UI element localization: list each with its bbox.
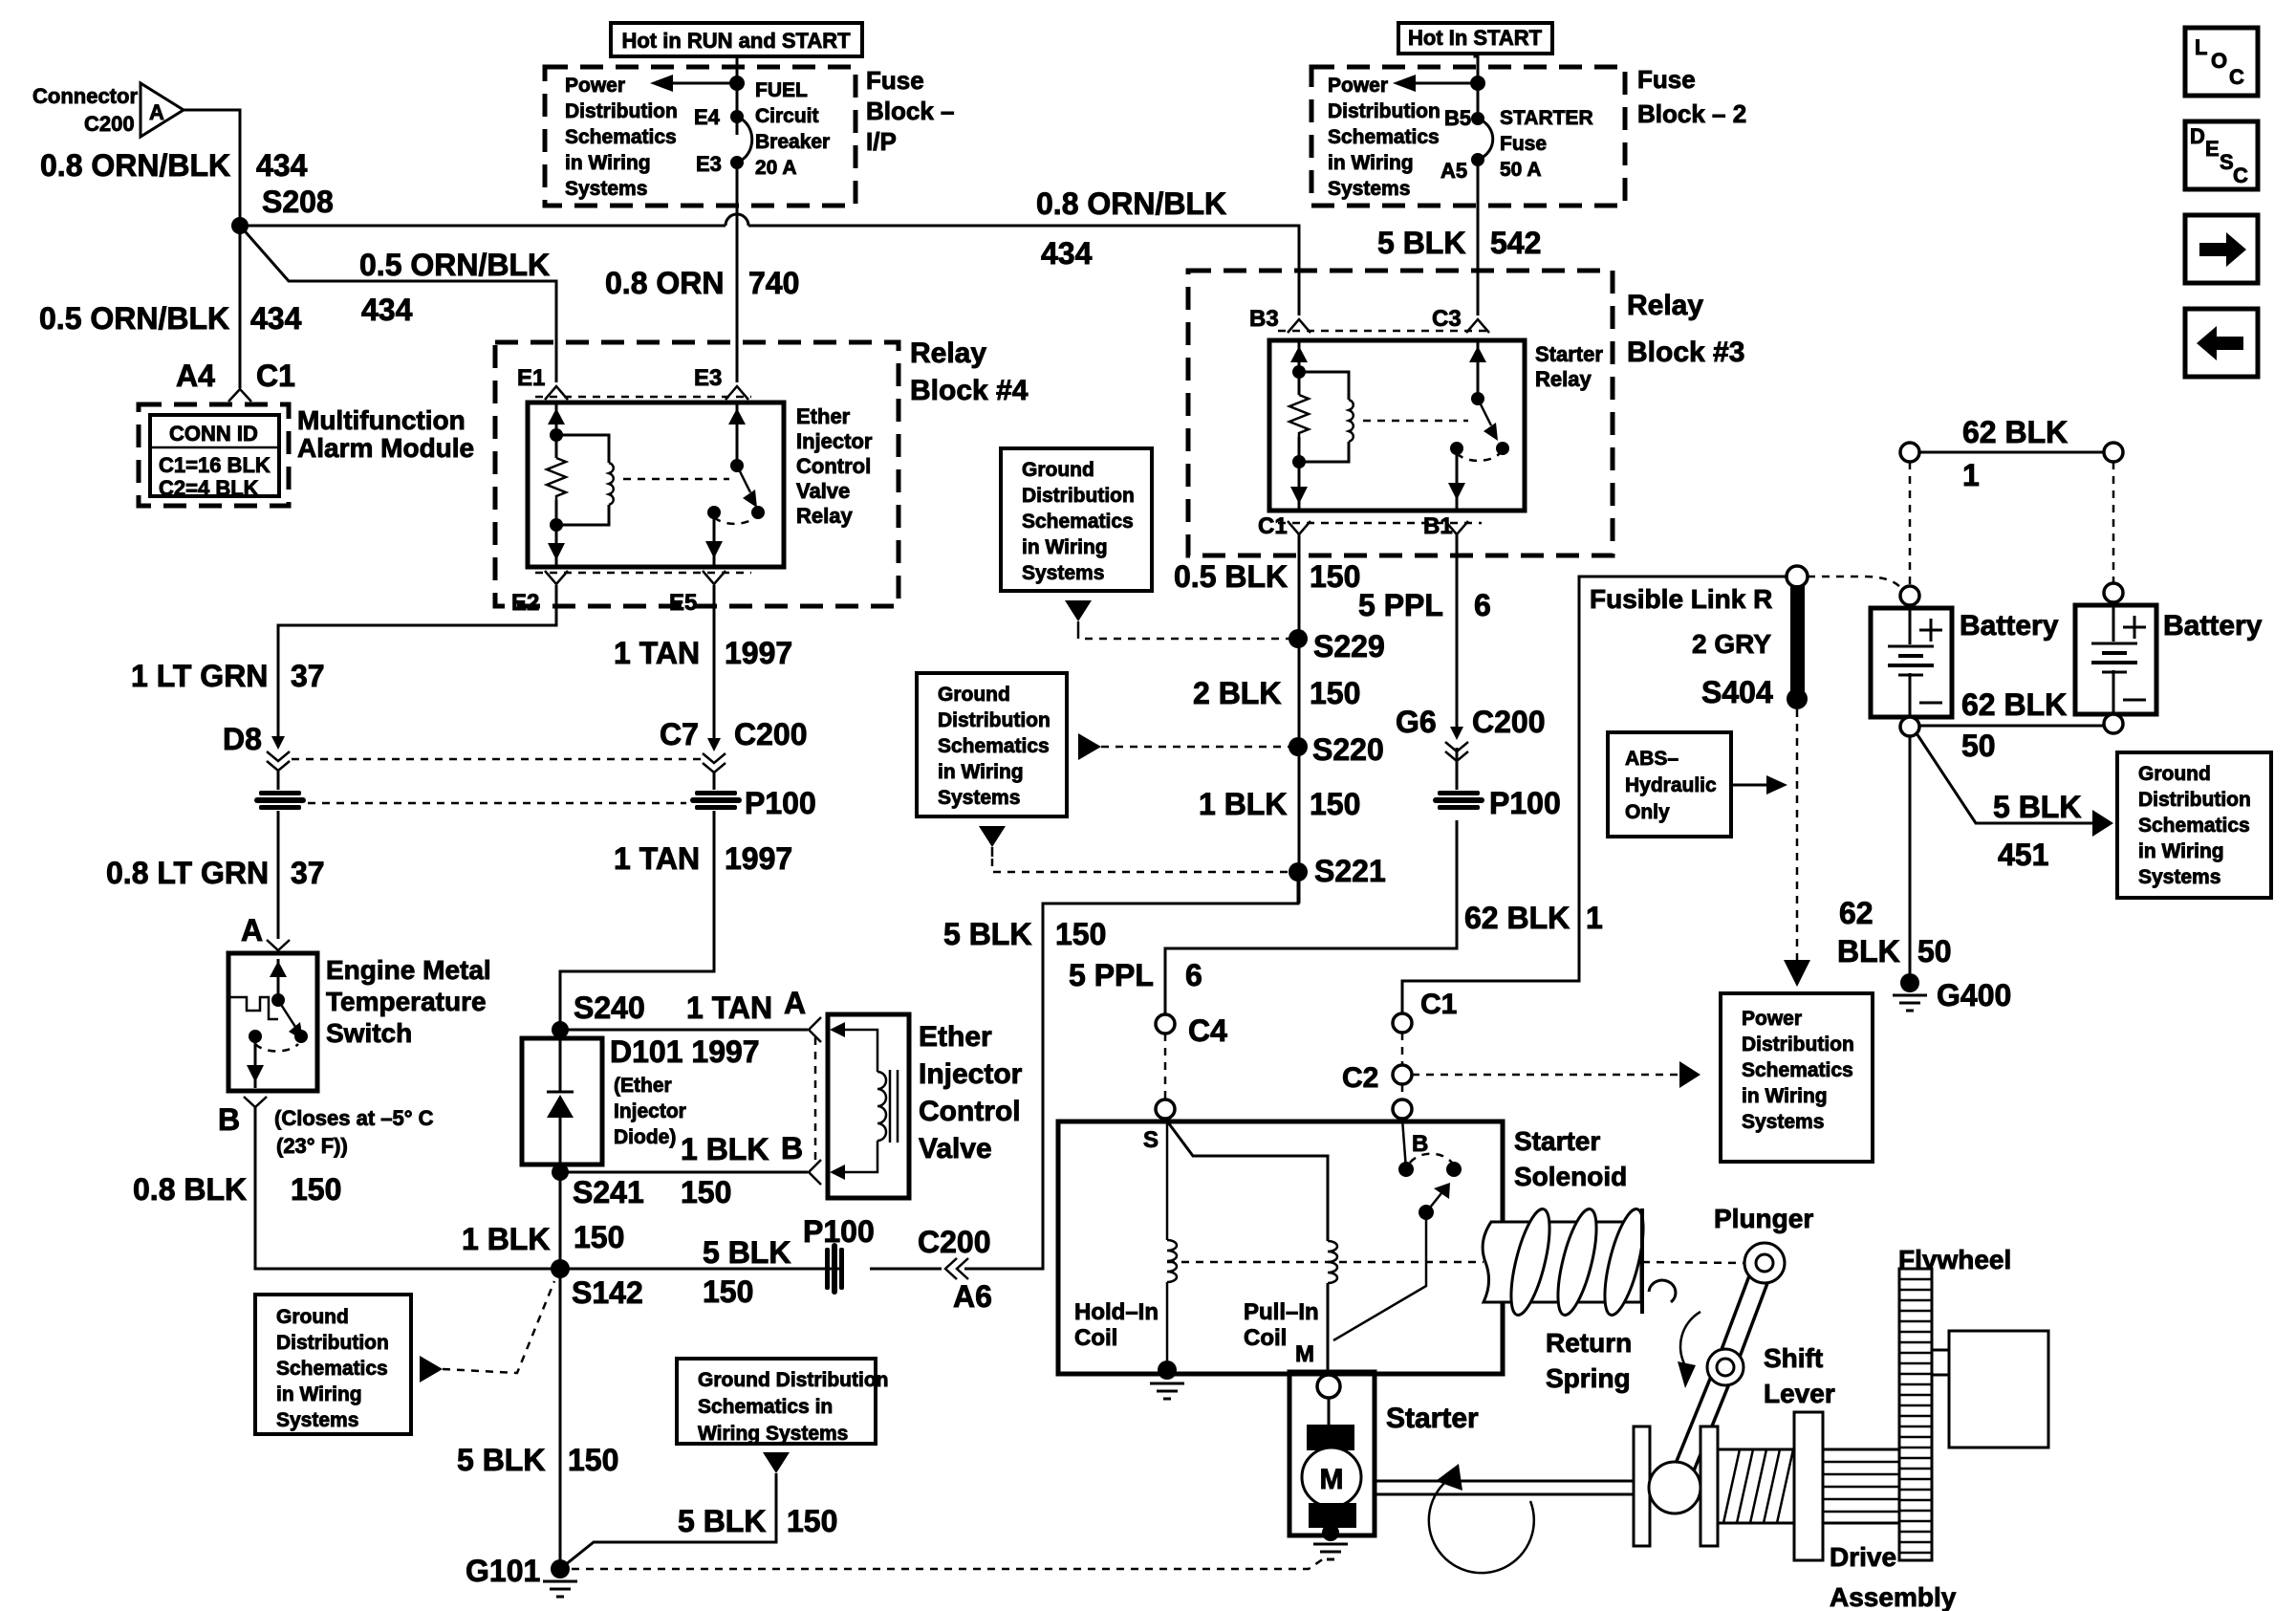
svg-text:C1: C1 xyxy=(1258,513,1288,539)
svg-text:5 BLK: 5 BLK xyxy=(678,1504,766,1538)
svg-text:1: 1 xyxy=(1962,458,1980,492)
svg-text:6: 6 xyxy=(1474,588,1491,622)
ground distribution box bottom left xyxy=(255,1295,411,1434)
valve coil internals xyxy=(830,1022,898,1180)
node G101 xyxy=(466,1554,570,1588)
label 0.5 ORN/BLK 434 left xyxy=(39,301,302,336)
svg-text:A: A xyxy=(149,100,164,124)
icon box arrow right xyxy=(2185,215,2258,283)
svg-text:0.5 BLK: 0.5 BLK xyxy=(1174,559,1288,594)
svg-text:150: 150 xyxy=(1310,787,1360,821)
svg-text:Systems: Systems xyxy=(565,178,647,200)
label 5 BLK 150 mid xyxy=(943,917,1106,951)
label 62 BLK 1 xyxy=(1464,901,1603,935)
temp switch internals xyxy=(230,959,308,1088)
arrow ABS box to fusible link wire xyxy=(1731,775,1787,795)
connector C200 triangle A xyxy=(141,83,184,137)
circuit breaker element xyxy=(737,117,752,163)
relay3 switch arrow up xyxy=(1469,346,1486,362)
svg-text:Shift: Shift xyxy=(1764,1343,1823,1373)
svg-text:1 LT GRN: 1 LT GRN xyxy=(131,659,268,693)
svg-text:Schematics in: Schematics in xyxy=(698,1396,833,1418)
svg-text:451: 451 xyxy=(1998,838,2048,872)
svg-text:Hot in RUN and START: Hot in RUN and START xyxy=(621,29,851,53)
svg-text:Starter: Starter xyxy=(1386,1403,1479,1434)
svg-text:Starter: Starter xyxy=(1514,1126,1600,1156)
label FUEL circuit breaker 20A xyxy=(755,79,830,179)
ground symbol G400 xyxy=(1893,995,1927,1011)
svg-text:S229: S229 xyxy=(1313,629,1385,664)
starter ground dot xyxy=(1322,1524,1339,1541)
svg-text:150: 150 xyxy=(787,1504,837,1538)
relay3 switch pivot dot xyxy=(1471,392,1484,405)
svg-text:Ground Distribution: Ground Distribution xyxy=(698,1369,888,1391)
label 1 BLK 150 xyxy=(1199,787,1360,821)
pin C1 relay3 xyxy=(1258,513,1310,539)
icon box DESC xyxy=(2185,121,2258,189)
node S404 xyxy=(1701,675,1808,709)
svg-text:Block #4: Block #4 xyxy=(910,375,1029,406)
svg-text:62: 62 xyxy=(1839,896,1874,930)
svg-text:Systems: Systems xyxy=(1328,178,1410,200)
svg-text:G6: G6 xyxy=(1396,705,1437,739)
dashed down to battery 1 xyxy=(1909,462,1912,585)
svg-text:in Wiring: in Wiring xyxy=(938,761,1024,783)
node S221 xyxy=(1289,854,1386,888)
relay3 arm end dot xyxy=(1496,442,1509,455)
relay4 switch pivot dot xyxy=(730,459,744,472)
svg-text:Systems: Systems xyxy=(1742,1111,1824,1133)
svg-text:Plunger: Plunger xyxy=(1714,1204,1813,1233)
label fusible link R 2 GRY xyxy=(1590,584,1772,659)
svg-text:0.8 LT GRN: 0.8 LT GRN xyxy=(106,856,269,890)
fuse block I/P dashed box xyxy=(545,67,856,206)
dashed D8 to C7 xyxy=(292,758,701,761)
svg-text:5 BLK: 5 BLK xyxy=(943,917,1031,951)
svg-text:E: E xyxy=(2205,137,2220,161)
label 5 BLK 542 xyxy=(1377,226,1541,260)
relay4 switch wire from E3 xyxy=(736,403,739,466)
wire battery1 to G400 xyxy=(1909,736,1912,983)
svg-text:FUEL: FUEL xyxy=(755,79,808,101)
hot in RUN and START box xyxy=(611,23,862,56)
label 2 BLK 150 xyxy=(1193,676,1360,710)
hold-in coil wire down xyxy=(1166,1282,1169,1370)
motor brush top xyxy=(1307,1425,1354,1450)
svg-text:Distribution: Distribution xyxy=(1328,100,1440,122)
relay4 contact dot xyxy=(707,506,721,519)
svg-text:E5: E5 xyxy=(669,590,697,616)
svg-text:S221: S221 xyxy=(1314,854,1386,888)
label D101 1997 ether injector diode xyxy=(610,1034,760,1148)
svg-text:0.8 BLK: 0.8 BLK xyxy=(133,1172,247,1207)
relay4 switch arrow up xyxy=(728,408,746,425)
svg-text:Injector: Injector xyxy=(796,429,873,453)
svg-text:C2=4 BLK: C2=4 BLK xyxy=(159,476,259,500)
label 0.8 BLK 150 xyxy=(133,1172,341,1207)
solenoid switch pivot dot xyxy=(1419,1205,1434,1220)
svg-text:Diode): Diode) xyxy=(614,1126,676,1148)
label ether injector control valve xyxy=(919,1021,1023,1165)
connector D8 (C200) xyxy=(223,722,290,771)
relay4 arrow up xyxy=(548,408,565,425)
svg-text:Schematics: Schematics xyxy=(1742,1059,1853,1081)
hot in START box xyxy=(1398,23,1552,54)
label relay block 3 xyxy=(1627,290,1744,368)
node S240 xyxy=(552,986,806,1038)
svg-text:434: 434 xyxy=(1041,236,1093,271)
CONN ID table xyxy=(150,415,279,500)
svg-text:S208: S208 xyxy=(262,185,334,219)
label engine metal temperature switch xyxy=(326,955,491,1048)
hold-in coil wire xyxy=(1166,1119,1169,1240)
relay3 arrow down xyxy=(1290,487,1308,504)
grommet P100 B1 xyxy=(1433,786,1561,820)
starter motor wire xyxy=(1329,1398,1331,1535)
label 5 PPL 6 lower xyxy=(1069,958,1202,992)
svg-text:Coil: Coil xyxy=(1244,1325,1287,1351)
svg-text:Valve: Valve xyxy=(919,1133,992,1165)
svg-text:542: 542 xyxy=(1490,226,1541,260)
junction dot fuse 2 top xyxy=(1470,76,1485,91)
label 62 BLK 1 top xyxy=(1962,415,2068,492)
wire S241 down to S142 xyxy=(559,1172,562,1269)
connector C7 (C200) xyxy=(660,717,808,773)
svg-text:Valve: Valve xyxy=(796,479,850,503)
svg-text:C1: C1 xyxy=(1420,989,1457,1020)
svg-text:Lever: Lever xyxy=(1764,1379,1835,1408)
label 1 TAN 1997 upper xyxy=(614,636,792,670)
label STARTER fuse 50A xyxy=(1500,107,1593,181)
svg-text:434: 434 xyxy=(361,293,413,327)
starter box xyxy=(1289,1372,1375,1535)
battery 1 bottom circle xyxy=(1900,717,1919,736)
label closes at -5C xyxy=(274,1106,434,1158)
svg-text:Hydraulic: Hydraulic xyxy=(1625,774,1717,796)
svg-text:Injector: Injector xyxy=(919,1058,1023,1090)
solenoid switch dashed arc xyxy=(1410,1154,1452,1163)
pin B3 xyxy=(1249,306,1310,333)
relay4 contact wire down xyxy=(705,512,723,567)
arrow right of bottom left ground box xyxy=(420,1356,443,1382)
relay4 top pin dashed row xyxy=(535,396,751,399)
relay3 contact wire down xyxy=(1448,448,1465,511)
svg-text:Ground: Ground xyxy=(2138,763,2211,785)
plunger pivot circle xyxy=(1744,1243,1785,1283)
relay3 switch arm xyxy=(1478,399,1498,441)
svg-text:Starter: Starter xyxy=(1535,342,1603,366)
dashed fusible link to battery xyxy=(1808,577,1900,587)
svg-text:Schematics: Schematics xyxy=(1022,511,1134,533)
label relay block 4 xyxy=(910,337,1029,406)
svg-text:5 BLK: 5 BLK xyxy=(457,1443,545,1477)
node S142 xyxy=(551,1259,643,1310)
relay4 coil xyxy=(609,463,614,505)
svg-text:A5: A5 xyxy=(1440,159,1467,183)
svg-text:B5: B5 xyxy=(1444,106,1471,130)
svg-text:Control: Control xyxy=(796,454,871,478)
starter solenoid box xyxy=(1058,1121,1503,1374)
shift lever rotation arrow xyxy=(1678,1312,1700,1388)
M pin circle xyxy=(1317,1375,1340,1398)
motor brush bottom xyxy=(1309,1503,1356,1528)
label multifunction alarm module xyxy=(297,405,474,463)
svg-text:in Wiring: in Wiring xyxy=(276,1383,362,1405)
svg-text:P100: P100 xyxy=(803,1214,875,1249)
wire S240 to valve pin A xyxy=(560,1029,808,1032)
svg-text:62 BLK: 62 BLK xyxy=(1961,687,2067,722)
node S241 xyxy=(552,1164,731,1209)
svg-text:I/P: I/P xyxy=(866,127,897,156)
svg-text:Relay: Relay xyxy=(910,337,986,369)
label pull-in coil xyxy=(1244,1299,1319,1351)
label shift lever xyxy=(1764,1343,1835,1408)
relay3 coil xyxy=(1349,400,1354,442)
return spring end plate xyxy=(1640,1208,1644,1314)
ground distribution box right xyxy=(2117,752,2271,898)
label 5 BLK 150 low xyxy=(457,1443,618,1477)
relay4 body box xyxy=(528,403,784,567)
svg-text:Spring: Spring xyxy=(1546,1363,1631,1393)
shift lever arm xyxy=(1679,1263,1765,1480)
label 5 PPL 6 xyxy=(1358,588,1491,622)
svg-text:Schematics: Schematics xyxy=(938,735,1050,757)
icon box LOC xyxy=(2185,28,2258,96)
svg-text:Ground: Ground xyxy=(276,1306,349,1328)
svg-text:Relay: Relay xyxy=(1627,290,1703,321)
node S220 xyxy=(1289,732,1384,767)
svg-text:Systems: Systems xyxy=(1022,562,1104,584)
svg-text:50: 50 xyxy=(1961,729,1996,763)
wire S208 to relay4 E1 xyxy=(240,226,556,382)
svg-text:C3: C3 xyxy=(1432,306,1462,332)
svg-text:B: B xyxy=(781,1131,803,1165)
flywheel hub stub xyxy=(1932,1350,1949,1375)
svg-text:E3: E3 xyxy=(694,365,722,391)
pin E3 relay4 xyxy=(694,365,748,400)
connector C200 A6 xyxy=(918,1225,992,1314)
svg-text:S: S xyxy=(2220,150,2234,174)
svg-text:Only: Only xyxy=(1625,801,1670,823)
svg-text:Temperature: Temperature xyxy=(326,987,487,1016)
svg-text:D101 1997: D101 1997 xyxy=(610,1034,760,1069)
relay4 coil bottom dot xyxy=(550,518,563,532)
svg-text:Fuse: Fuse xyxy=(1637,65,1696,94)
pin A chevron valve xyxy=(809,1017,821,1042)
arrow below top ground box xyxy=(1065,600,1092,631)
svg-text:62 BLK: 62 BLK xyxy=(1464,901,1570,935)
svg-text:in Wiring: in Wiring xyxy=(1742,1085,1828,1107)
svg-text:Drive: Drive xyxy=(1830,1542,1896,1572)
svg-text:P100: P100 xyxy=(1489,786,1561,820)
drive screw shaft xyxy=(1718,1449,1794,1523)
relay3 switch wire from C3 xyxy=(1477,340,1480,399)
svg-text:1 TAN: 1 TAN xyxy=(614,841,700,876)
pin B temp switch xyxy=(218,1097,267,1137)
svg-text:Hold–In: Hold–In xyxy=(1074,1299,1159,1325)
wire breaker E3 down to relay4 E3 xyxy=(736,163,739,382)
dashed C1 to C2 xyxy=(1401,1033,1404,1065)
connector G6 C200 xyxy=(1396,705,1546,761)
solenoid switch arm xyxy=(1426,1183,1450,1212)
wire hot in START to fuse xyxy=(1475,54,1478,119)
svg-text:M: M xyxy=(1295,1341,1314,1367)
svg-text:0.8 ORN/BLK: 0.8 ORN/BLK xyxy=(1036,186,1226,221)
wire B down to S142 xyxy=(255,1107,556,1269)
svg-text:1 BLK: 1 BLK xyxy=(1199,787,1287,821)
pin E5 xyxy=(669,571,726,616)
dashed to S229 xyxy=(1078,631,1289,639)
svg-text:Pull–In: Pull–In xyxy=(1244,1299,1319,1325)
svg-text:0.5 ORN/BLK: 0.5 ORN/BLK xyxy=(39,301,229,336)
solenoid S branch wire xyxy=(1165,1119,1328,1241)
svg-text:S404: S404 xyxy=(1701,675,1773,709)
arrow right of mid ground box xyxy=(1078,733,1101,760)
wire S142 down to G101 xyxy=(559,1269,562,1569)
wire S142 to C200 A6 xyxy=(560,1268,942,1271)
battery 2 xyxy=(2075,583,2156,714)
relay3 switch dashed arc xyxy=(1457,453,1500,461)
svg-text:C200: C200 xyxy=(918,1225,991,1259)
relay block 4 dashed box xyxy=(495,342,899,606)
svg-text:A: A xyxy=(241,913,263,947)
svg-text:5 PPL: 5 PPL xyxy=(1069,958,1154,992)
dashed to S220 xyxy=(1101,746,1289,749)
drive splined shaft xyxy=(1823,1449,1899,1523)
wire E2 to D8 xyxy=(278,585,556,736)
svg-text:Block #3: Block #3 xyxy=(1627,337,1744,368)
label power distribution schematics (fuse I/P) xyxy=(565,75,678,200)
wire between battery grounds xyxy=(1919,725,2104,728)
pull-in coil xyxy=(1328,1241,1337,1283)
svg-text:S220: S220 xyxy=(1312,732,1384,767)
ground distribution box bottom mid xyxy=(677,1359,888,1445)
svg-text:B3: B3 xyxy=(1249,306,1279,332)
wire 5 BLK 451 xyxy=(1917,733,2113,837)
relay block 3 dashed box xyxy=(1188,271,1613,555)
pin E3 fuse xyxy=(696,152,744,176)
starter fuse element xyxy=(1478,119,1493,160)
arrow below mid ground box xyxy=(979,826,1006,857)
svg-text:(23° F)): (23° F)) xyxy=(276,1134,348,1158)
svg-text:C1=16 BLK: C1=16 BLK xyxy=(159,453,271,477)
svg-text:Wiring Systems: Wiring Systems xyxy=(698,1423,848,1445)
arrow to power distribution (fuse I/P) xyxy=(650,75,737,92)
svg-text:Ether: Ether xyxy=(919,1021,992,1053)
svg-text:L: L xyxy=(2195,35,2207,59)
connector C2 circle xyxy=(1342,1062,1412,1094)
svg-text:20 A: 20 A xyxy=(755,157,797,179)
label drive assembly xyxy=(1830,1542,1957,1611)
drive shaft plate 1 xyxy=(1634,1426,1650,1546)
battery 2 bottom circle xyxy=(2104,714,2123,733)
svg-text:BLK: BLK xyxy=(1837,934,1900,969)
wire P100 down to S240 xyxy=(560,811,714,1030)
ground symbol G101 xyxy=(543,1581,577,1597)
label hold-in coil xyxy=(1074,1299,1159,1351)
diode D101 box xyxy=(522,1038,602,1165)
label 5 BLK 150 xyxy=(703,1235,791,1309)
arrow below bottom mid ground box xyxy=(763,1452,790,1473)
svg-text:(Closes at –5° C: (Closes at –5° C xyxy=(274,1106,434,1130)
grommet P100 left xyxy=(254,791,306,810)
svg-text:5 PPL: 5 PPL xyxy=(1358,588,1443,622)
wire relay3 C1 down S229 chain xyxy=(1298,534,1301,903)
relay3 coil branch wire xyxy=(1299,340,1349,511)
svg-text:37: 37 xyxy=(291,659,325,693)
svg-text:2 GRY: 2 GRY xyxy=(1692,629,1771,659)
svg-text:Block – 2: Block – 2 xyxy=(1637,99,1746,128)
relay3 bottom pin dashed row xyxy=(1278,522,1482,525)
svg-text:Assembly: Assembly xyxy=(1830,1582,1957,1611)
drive ball joint xyxy=(1649,1462,1700,1513)
dashed C2 to power distribution box xyxy=(1412,1074,1679,1077)
label starter relay xyxy=(1535,342,1603,391)
relay3 coil top dot xyxy=(1292,365,1306,379)
relay4 resistor xyxy=(547,458,566,500)
svg-text:B1: B1 xyxy=(1423,513,1453,539)
dashed S404 down to power distribution box xyxy=(1784,709,1810,987)
svg-text:Systems: Systems xyxy=(938,787,1020,809)
svg-text:Multifunction: Multifunction xyxy=(297,405,466,435)
svg-text:C: C xyxy=(2233,163,2248,187)
wire hot in RUN to breaker xyxy=(736,56,739,135)
motor circle M xyxy=(1302,1448,1361,1507)
engine metal temperature switch box xyxy=(228,953,317,1091)
wire 62 BLK 1 battery link xyxy=(1900,443,2123,462)
svg-text:6: 6 xyxy=(1185,958,1202,992)
svg-text:STARTER: STARTER xyxy=(1500,107,1593,129)
svg-text:S240: S240 xyxy=(574,991,645,1025)
svg-text:S241: S241 xyxy=(573,1175,644,1209)
hop over breaker wire xyxy=(726,214,748,226)
dashed down to battery 2 xyxy=(2112,462,2115,582)
svg-text:5 BLK: 5 BLK xyxy=(703,1235,791,1270)
connector C4 circle xyxy=(1156,1013,1227,1048)
svg-text:150: 150 xyxy=(291,1172,341,1207)
shift lever mid circle xyxy=(1707,1349,1744,1385)
svg-text:Distribution: Distribution xyxy=(276,1332,389,1354)
svg-text:Distribution: Distribution xyxy=(1022,485,1135,507)
svg-text:D8: D8 xyxy=(223,722,262,756)
wire A5 down to relay3 C3 xyxy=(1477,160,1480,316)
wire connector A to S208 xyxy=(184,110,240,222)
svg-text:150: 150 xyxy=(1310,676,1360,710)
label ether injector control valve relay xyxy=(796,404,873,528)
relay3 arrow up xyxy=(1290,346,1308,362)
svg-text:Injector: Injector xyxy=(614,1100,686,1122)
svg-text:S: S xyxy=(1143,1127,1159,1153)
arrow into power distribution box xyxy=(1679,1061,1700,1088)
svg-text:C2: C2 xyxy=(1342,1062,1378,1094)
label 0.5 BLK 150 xyxy=(1174,559,1360,594)
svg-text:(Ether: (Ether xyxy=(614,1075,672,1097)
svg-text:150: 150 xyxy=(681,1175,731,1209)
svg-text:Schematics: Schematics xyxy=(2138,815,2250,837)
pin E2 xyxy=(511,571,568,616)
svg-text:Fuse: Fuse xyxy=(1500,133,1547,155)
relay3 dashed link xyxy=(1363,420,1468,423)
svg-text:Systems: Systems xyxy=(276,1409,358,1431)
svg-text:Switch: Switch xyxy=(326,1018,412,1048)
relay4 arrow down xyxy=(548,543,565,560)
svg-text:1 BLK: 1 BLK xyxy=(462,1222,550,1256)
dashed through coils to plunger xyxy=(1167,1262,1744,1263)
svg-text:Ground: Ground xyxy=(1022,459,1094,481)
svg-text:C7: C7 xyxy=(660,717,699,751)
pin B chevron valve xyxy=(809,1160,821,1185)
wire E5 down through C7 xyxy=(713,585,716,738)
